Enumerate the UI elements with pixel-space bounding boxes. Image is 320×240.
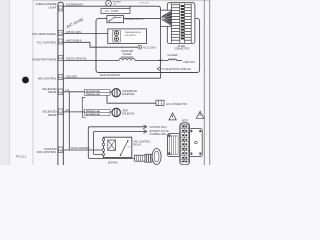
svg-text:424: 424 bbox=[65, 109, 70, 112]
bullet dot marker bbox=[22, 77, 29, 84]
svg-text:TRANSMISSION: TRANSMISSION bbox=[125, 31, 142, 34]
svg-text:LIGHT: LIGHT bbox=[48, 6, 56, 10]
page top faint border bbox=[33, 0, 210, 2]
pin box 45 bbox=[59, 75, 63, 80]
warning triangle 1 bbox=[169, 113, 176, 120]
svg-text:419 BRN/WHT: 419 BRN/WHT bbox=[66, 2, 84, 6]
pin box 44 bbox=[59, 89, 63, 95]
svg-text:EGR SOLENOID: EGR SOLENOID bbox=[100, 73, 120, 77]
wire check engine light bbox=[63, 6, 160, 10]
svg-text:A.C. COMP: A.C. COMP bbox=[105, 9, 119, 13]
svg-text:32 WAY: 32 WAY bbox=[177, 45, 186, 48]
svg-text:47: 47 bbox=[59, 56, 63, 60]
relay switch bbox=[121, 141, 128, 155]
ladder rungs bbox=[171, 5, 191, 40]
connector symbol A/C bbox=[106, 1, 112, 7]
svg-text:GAUGES: GAUGES bbox=[167, 54, 178, 57]
svg-text:BRAKE SWITCH: BRAKE SWITCH bbox=[126, 18, 144, 21]
wire color tags bbox=[85, 89, 111, 92]
svg-text:48: 48 bbox=[59, 148, 63, 152]
pin box 4B bbox=[59, 147, 63, 153]
svg-text:BATTERY CUT A6: BATTERY CUT A6 bbox=[150, 130, 170, 133]
svg-text:IGNITION SW 3: IGNITION SW 3 bbox=[150, 126, 168, 129]
wire ignition feed bbox=[88, 127, 146, 159]
converter solenoid bbox=[112, 89, 120, 97]
wire solenoid drive 1 bbox=[63, 91, 112, 93]
svg-text:A/CL CONNECTOR: A/CL CONNECTOR bbox=[166, 103, 187, 106]
wire to A/CL connector bbox=[107, 95, 156, 103]
junction bar bbox=[82, 97, 85, 117]
left scan strip bbox=[0, 0, 9, 165]
ladder feed wire bbox=[160, 26, 162, 78]
svg-text:SOLENOID: SOLENOID bbox=[121, 56, 134, 59]
page background bbox=[0, 0, 220, 165]
wire to A/CL connector bbox=[90, 42, 138, 47]
wire tcc control bbox=[63, 41, 90, 43]
wire cooling fan control bbox=[63, 149, 103, 151]
wire air control bbox=[63, 77, 160, 79]
warning triangle 2 bbox=[196, 111, 203, 118]
pin box 42 bbox=[59, 109, 63, 115]
svg-text:TCC CONTROL: TCC CONTROL bbox=[37, 40, 57, 44]
svg-text:RELAY: RELAY bbox=[134, 144, 142, 147]
svg-text:428 DK GRN/YEL: 428 DK GRN/YEL bbox=[66, 57, 87, 61]
harness wedge bbox=[161, 10, 172, 26]
svg-text:DRIVE: DRIVE bbox=[48, 113, 57, 117]
svg-text:A/CL CONN: A/CL CONN bbox=[143, 46, 156, 49]
wire solenoid drive 2 bbox=[63, 111, 112, 113]
svg-text:SOLENOID: SOLENOID bbox=[125, 35, 137, 37]
svg-text:PNK/BLK A/D: PNK/BLK A/D bbox=[86, 93, 100, 96]
svg-text:(FUSIBLE LINK): (FUSIBLE LINK) bbox=[150, 134, 167, 136]
pin box A7 bbox=[59, 31, 63, 36]
canister purge solenoid coil L1 bbox=[119, 58, 135, 60]
svg-text:436 GRN: 436 GRN bbox=[66, 75, 77, 79]
svg-text:21: 21 bbox=[59, 7, 63, 11]
inline connector bbox=[156, 100, 164, 105]
relay coil bbox=[108, 140, 116, 150]
gauges fuse coil bbox=[168, 59, 176, 60]
inline splice connector bbox=[135, 155, 146, 161]
svg-text:BRN/BLK A/D: BRN/BLK A/D bbox=[86, 110, 101, 113]
wire color tags bbox=[85, 109, 111, 112]
svg-text:45: 45 bbox=[59, 75, 63, 79]
branch wire down bbox=[68, 92, 70, 150]
svg-text:48 DK GRN/WHT: 48 DK GRN/WHT bbox=[71, 147, 90, 150]
wire battery feed bbox=[94, 132, 147, 155]
ladder centre pins bbox=[181, 5, 184, 39]
svg-text:446 TAN/BLK: 446 TAN/BLK bbox=[66, 39, 82, 43]
pin box 47 bbox=[59, 56, 63, 61]
branch to A/C comp bbox=[129, 6, 131, 8]
svg-text:465 DK GRN: 465 DK GRN bbox=[66, 30, 81, 34]
pin box D2 bbox=[59, 39, 63, 44]
svg-text:CANISTER PURGE: CANISTER PURGE bbox=[32, 57, 57, 61]
A/C comp box bbox=[101, 9, 130, 14]
ECM connector left lobe bbox=[168, 134, 180, 157]
svg-text:BLK/PNK A/D: BLK/PNK A/D bbox=[86, 90, 100, 93]
wire bbox=[135, 59, 168, 61]
relay pins bbox=[102, 138, 105, 141]
grommet ring bbox=[152, 149, 161, 165]
svg-text:BLK/PNK: BLK/PNK bbox=[108, 163, 118, 165]
svg-text:AIR CONTROL: AIR CONTROL bbox=[38, 76, 57, 80]
page left faint border bbox=[32, 0, 34, 165]
svg-text:NOTE: NOTE bbox=[182, 120, 189, 122]
svg-text:44: 44 bbox=[59, 90, 63, 94]
svg-text:TO ELECTRICAL MODULE: TO ELECTRICAL MODULE bbox=[162, 68, 191, 71]
ECM connector right lobe bbox=[190, 129, 203, 157]
svg-text:SOLENOID: SOLENOID bbox=[122, 93, 135, 96]
ECM pictorial connector centre bbox=[180, 123, 190, 165]
svg-text:FAN CONTROL: FAN CONTROL bbox=[37, 150, 57, 154]
pin numbers bbox=[59, 7, 63, 153]
svg-text:42: 42 bbox=[59, 110, 63, 114]
svg-text:L10: L10 bbox=[65, 89, 70, 92]
svg-text:FIG 21 3: FIG 21 3 bbox=[16, 155, 27, 159]
wire 4th gear signal bbox=[63, 33, 108, 35]
fan control relay K1 bbox=[104, 137, 132, 157]
svg-text:SOLENOID: SOLENOID bbox=[122, 113, 135, 116]
big module box bbox=[96, 18, 200, 72]
svg-text:23: 23 bbox=[59, 31, 63, 35]
terminal to module bbox=[157, 67, 160, 71]
solenoid S1 bbox=[114, 31, 118, 35]
transmission solenoid box bbox=[108, 29, 147, 44]
vent solenoid bbox=[112, 108, 120, 116]
svg-text:DRIVE: DRIVE bbox=[48, 90, 57, 94]
connector body C100 bbox=[145, 154, 152, 162]
brake switch SW1 bbox=[107, 16, 124, 23]
svg-text:HIGH FAN: HIGH FAN bbox=[183, 61, 195, 64]
solenoid S2 bbox=[114, 37, 118, 41]
right page border double lines bbox=[203, 0, 205, 165]
left ECM signal labels bbox=[32, 2, 57, 154]
pin box A5 bbox=[59, 6, 63, 11]
svg-text:CONNECTOR: CONNECTOR bbox=[174, 49, 189, 51]
wire canister purge bbox=[63, 59, 119, 61]
svg-text:4 T.V. 25: 4 T.V. 25 bbox=[140, 2, 149, 4]
svg-text:BLK/BRN A/D: BLK/BRN A/D bbox=[86, 113, 101, 116]
wire bbox=[177, 59, 182, 61]
svg-text:4TH GEAR SIGNAL: 4TH GEAR SIGNAL bbox=[32, 32, 57, 36]
ECM connector column bbox=[58, 2, 63, 165]
svg-text:12: 12 bbox=[59, 40, 63, 44]
32-way connector ladder bbox=[167, 2, 196, 44]
